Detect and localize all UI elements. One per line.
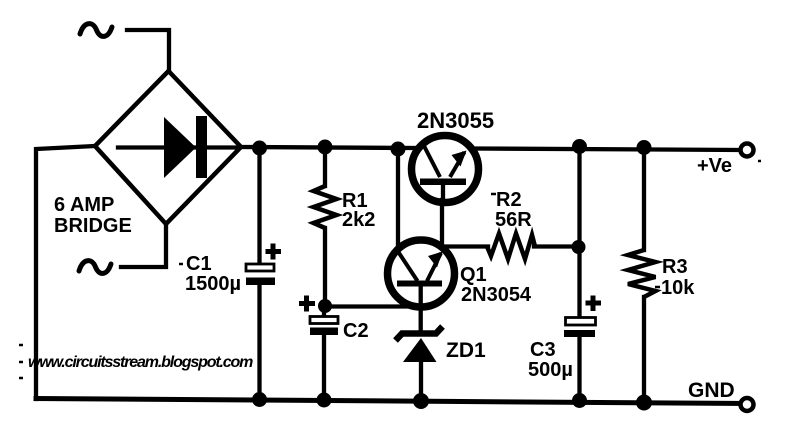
svg-text:ZD1: ZD1 [446, 339, 486, 362]
svg-text:BRIDGE: BRIDGE [54, 215, 132, 237]
svg-text:1500µ: 1500µ [185, 273, 241, 295]
svg-text:500µ: 500µ [528, 359, 573, 381]
svg-text:www.circuitsstream.blogspot.co: www.circuitsstream.blogspot.com [28, 354, 253, 371]
svg-text:Q1: Q1 [460, 264, 487, 286]
svg-text:+Ve: +Ve [697, 155, 732, 177]
svg-text:R2: R2 [496, 189, 522, 211]
svg-text:C3: C3 [530, 339, 556, 361]
svg-text:R3: R3 [662, 256, 688, 278]
svg-text:56R: 56R [495, 209, 532, 231]
svg-text:2N3055: 2N3055 [417, 108, 494, 133]
svg-text:2k2: 2k2 [342, 209, 375, 231]
svg-text:GND: GND [688, 379, 735, 402]
svg-text:C1: C1 [186, 253, 212, 275]
svg-text:2N3054: 2N3054 [461, 284, 532, 306]
svg-text:6 AMP: 6 AMP [54, 194, 114, 216]
svg-text:10k: 10k [661, 277, 695, 299]
svg-text:C2: C2 [343, 320, 369, 342]
